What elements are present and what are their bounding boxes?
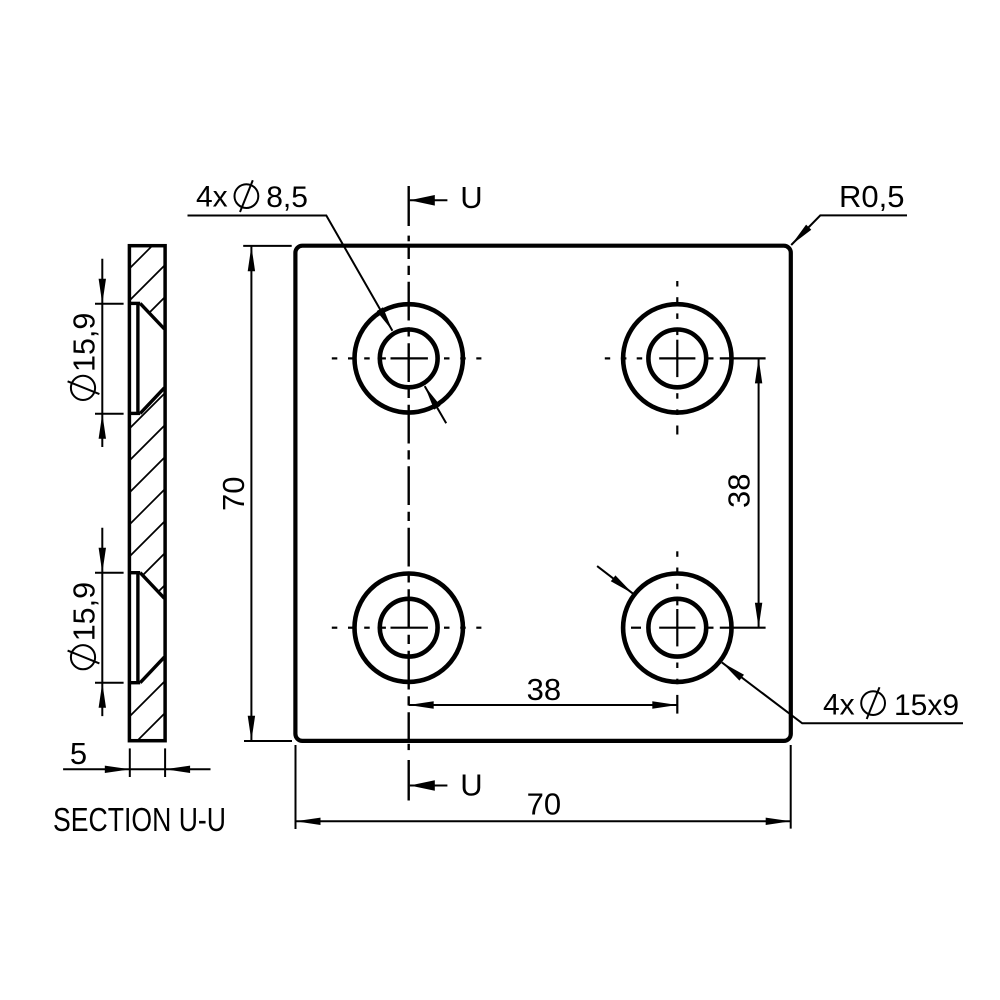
dimension 38 horizontal bottom: left arrow (409, 701, 434, 708)
svg-text:SECTION U-U: SECTION U-U (53, 802, 226, 839)
svg-text:U: U (460, 768, 482, 803)
label 4x dia 15x9 (823, 687, 959, 722)
dimension 70 horizontal bottom: text (527, 787, 561, 822)
svg-text:38: 38 (527, 672, 561, 707)
hole bottom-left: centerline horizontal (332, 627, 482, 629)
dimension 5: right arrow (165, 766, 190, 773)
dimension 38 horizontal bottom: text (527, 672, 561, 707)
svg-text:U: U (460, 180, 482, 215)
hole bottom-right: inner circle dia 8,5 (648, 599, 706, 657)
leader 4x dia 8,5: arrow upper (377, 307, 393, 331)
dimension 70 horizontal bottom: dimension line (296, 820, 791, 822)
dimension 70 horizontal bottom: extension lines (296, 745, 791, 829)
leader R0,5: leader line (791, 215, 907, 245)
hole bottom-right: centerline horizontal (631, 627, 766, 629)
dimension 38 horizontal bottom: dimension line (409, 704, 678, 706)
leader 4x dia 15x9: arrow upper (611, 575, 633, 593)
dimension 38 vertical right: top arrow (755, 358, 762, 383)
leader 4x dia 15x9: leader line (597, 566, 963, 723)
section lower countersink hole edges (129, 573, 164, 683)
hole bottom-right: centerline vertical (676, 551, 678, 713)
section upper countersink hole edges (129, 303, 164, 413)
cutting plane label U top (460, 180, 482, 215)
dimension dia 15,9 upper: dimension line tails (101, 259, 103, 447)
dimension 70 horizontal bottom: left arrow (296, 818, 321, 825)
section view hatching (127, 231, 167, 751)
hole top-left: outer circle dia 15,9 (355, 304, 463, 412)
svg-text:70: 70 (527, 787, 561, 822)
dimension dia 15,9 upper: extension lines (95, 304, 124, 414)
hole top-left: inner circle dia 8,5 (380, 330, 438, 388)
dimension dia 15,9 lower: bottom arrow (99, 683, 106, 708)
svg-text:15,9: 15,9 (68, 582, 102, 641)
dimension dia 15,9 lower: text (68, 582, 102, 669)
leader 4x dia 8,5: leader line (188, 216, 447, 424)
main view plate outline (295, 246, 790, 741)
dimension 5: dimension line tails (63, 768, 210, 770)
leader R0,5: arrow (791, 225, 811, 245)
dimension dia 15,9 lower: dimension line tails (101, 528, 103, 716)
dimension 5: text (70, 736, 87, 771)
dimension dia 15,9 lower: extension lines (95, 573, 124, 683)
dimension dia 15,9 upper: bottom arrow (99, 414, 106, 439)
dimension 5: left arrow (105, 766, 130, 773)
dimension dia 15,9 upper: text (68, 313, 102, 400)
dimension 70 vertical left: bottom arrow (248, 716, 255, 741)
svg-text:4x: 4x (196, 181, 228, 214)
cutting plane label U bottom (460, 768, 482, 803)
hole top-right: centerline vertical (676, 281, 678, 435)
svg-text:8,5: 8,5 (266, 181, 308, 214)
svg-text:15x9: 15x9 (894, 689, 959, 722)
section line U-U bottom part (408, 744, 410, 801)
section line U-U middle part (408, 246, 410, 741)
leader 4x dia 8,5: arrow lower (425, 386, 441, 410)
svg-text:R0,5: R0,5 (839, 179, 904, 214)
hole top-right: centerline horizontal (605, 357, 766, 359)
dimension 38 horizontal bottom: right arrow (652, 701, 677, 708)
section view plate outline (129, 246, 165, 741)
hole top-right: outer circle dia 15,9 (623, 304, 731, 412)
dimension 70 vertical left: text (216, 477, 251, 511)
label R0,5 (839, 179, 904, 214)
dimension 70 vertical left: dimension line (250, 246, 252, 741)
dimension 38 vertical right: bottom arrow (755, 603, 762, 628)
hole bottom-left: inner circle dia 8,5 (380, 599, 438, 657)
dimension 5: extension lines (130, 748, 165, 777)
leader 4x dia 15x9: arrow lower (722, 662, 744, 680)
svg-text:38: 38 (722, 474, 757, 508)
dimension 70 vertical left: extension lines (243, 246, 292, 741)
SECTION U-U title (53, 802, 226, 839)
dimension 38 vertical right: text (722, 474, 757, 508)
cutting plane arrow top (410, 195, 448, 206)
dimension dia 15,9 upper: top arrow (99, 279, 106, 304)
svg-text:5: 5 (70, 736, 87, 771)
hole top-right: inner circle dia 8,5 (648, 330, 706, 388)
cutting plane arrow bottom (410, 780, 448, 791)
dimension 70 vertical left: top arrow (248, 246, 255, 271)
hole top-left: centerline horizontal (332, 357, 482, 359)
svg-text:4x: 4x (823, 689, 855, 722)
section line U-U (vertical dash-dot) top part (408, 186, 410, 241)
svg-text:15,9: 15,9 (68, 313, 102, 372)
hole bottom-left: outer circle dia 15,9 (355, 574, 463, 682)
dimension 38 vertical right: dimension line (758, 358, 760, 627)
hole bottom-right: outer circle dia 15,9 (623, 574, 731, 682)
svg-text:70: 70 (216, 477, 251, 511)
dimension 70 horizontal bottom: right arrow (766, 818, 791, 825)
label 4x dia 8,5 (196, 180, 308, 214)
dimension dia 15,9 lower: top arrow (99, 548, 106, 573)
